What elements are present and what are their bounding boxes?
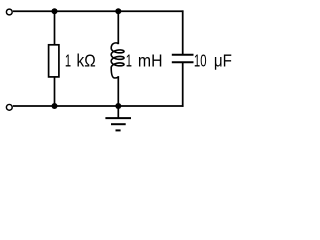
wire: top rail [13, 10, 184, 12]
ground stem [117, 106, 119, 118]
terminal: input top [6, 9, 12, 15]
wire: inductor top lead [117, 11, 119, 44]
svg-text:μF: μF [214, 51, 232, 71]
svg-text:1: 1 [65, 51, 71, 71]
wire: capacitor bottom lead [182, 62, 184, 107]
ground bar 2 [111, 123, 126, 125]
capacitor C1 bottom plate [172, 61, 194, 63]
inductor L1 coil [111, 43, 124, 78]
wire: bottom rail [13, 105, 184, 107]
svg-text:mH: mH [138, 51, 163, 71]
junction dot: bottom-resistor node [52, 103, 58, 109]
junction dot: top-resistor node [52, 8, 58, 14]
ground bar 1 [105, 117, 131, 119]
svg-text:kΩ: kΩ [77, 51, 96, 71]
svg-text:1: 1 [126, 51, 132, 71]
junction dot: bottom-inductor node [115, 103, 121, 109]
ground bar 3 [116, 129, 121, 131]
terminal: input bottom [6, 104, 12, 110]
wire: resistor top lead [54, 11, 56, 45]
wire: resistor bottom lead [54, 77, 56, 106]
capacitor C1 top plate [172, 54, 194, 56]
resistor R1 body [49, 45, 59, 77]
svg-text:10: 10 [194, 51, 207, 71]
junction dot: top-inductor node [115, 8, 121, 14]
wire: inductor bottom lead [117, 76, 119, 106]
wire: capacitor top lead [182, 10, 184, 54]
